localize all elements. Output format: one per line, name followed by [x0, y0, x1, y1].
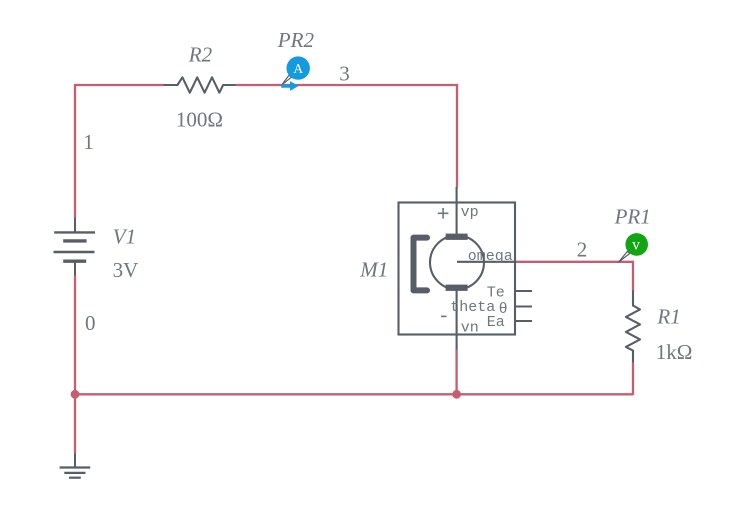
svg-text:R2: R2 [188, 43, 213, 67]
stator bracket [414, 238, 428, 291]
wire: node 1 vertical (V1 top to top-left corner) [74, 85, 76, 218]
needle [282, 75, 292, 85]
svg-text:omega: omega [468, 248, 513, 265]
svg-text:Ea: Ea [487, 314, 505, 331]
svg-text:2: 2 [577, 238, 588, 262]
wire: bottom horizontal net 0 [75, 393, 633, 395]
svg-text:M1: M1 [359, 258, 388, 282]
svg-text:vp: vp [461, 204, 479, 221]
rotor circle [430, 235, 484, 289]
plus mark [438, 208, 449, 219]
pin stub theta [515, 305, 532, 307]
voltage source V1 (battery) [54, 218, 96, 276]
wire: battery bottom to junction node 0 [74, 275, 76, 394]
svg-text:3V: 3V [113, 258, 139, 282]
probe body [287, 56, 310, 79]
wire: omega pin to node 2 corner and down to R1 [515, 262, 633, 291]
resistor R2 [164, 77, 236, 92]
wire: junction to ground [74, 394, 76, 454]
resistor R1 [626, 290, 640, 362]
blue current arrow [281, 81, 298, 91]
wire: R1 bottom to bottom net [632, 363, 634, 395]
wire: R2 right lead to top-right corner, node 3 [236, 85, 457, 188]
top pin line vp [456, 187, 458, 236]
wire: top-left corner to R2 left lead [74, 84, 164, 86]
svg-text:vn: vn [461, 319, 479, 336]
wire: motor vn pin down to bottom net [455, 349, 457, 394]
svg-text:100Ω: 100Ω [176, 108, 223, 132]
probe PR2 (current probe) [281, 56, 310, 91]
bottom pin line vn [456, 288, 458, 350]
omega output line [457, 261, 516, 263]
probe PR1 (voltage probe) [619, 233, 648, 262]
junction dot at node 0 (left) [71, 390, 80, 399]
pin stub Te [515, 290, 532, 292]
svg-text:R1: R1 [656, 305, 680, 329]
svg-text:V1: V1 [113, 225, 136, 249]
probe body [625, 233, 648, 256]
svg-text:PR1: PR1 [614, 205, 651, 229]
svg-text:0: 0 [85, 311, 96, 335]
bottom brush bar [446, 285, 468, 291]
svg-text:PR2: PR2 [277, 28, 315, 52]
minus mark [441, 315, 447, 317]
svg-text:1: 1 [83, 130, 94, 154]
needle [619, 251, 630, 262]
pin stub Ea [515, 320, 532, 322]
junction dot at motor bottom [452, 390, 461, 399]
svg-text:1kΩ: 1kΩ [656, 340, 693, 364]
svg-text:v: v [632, 236, 640, 253]
motor M1 [399, 187, 533, 350]
top brush bar [446, 234, 468, 240]
svg-text:A: A [293, 61, 303, 76]
ground [60, 454, 91, 478]
svg-text:3: 3 [339, 61, 350, 85]
motor body box [399, 203, 516, 335]
